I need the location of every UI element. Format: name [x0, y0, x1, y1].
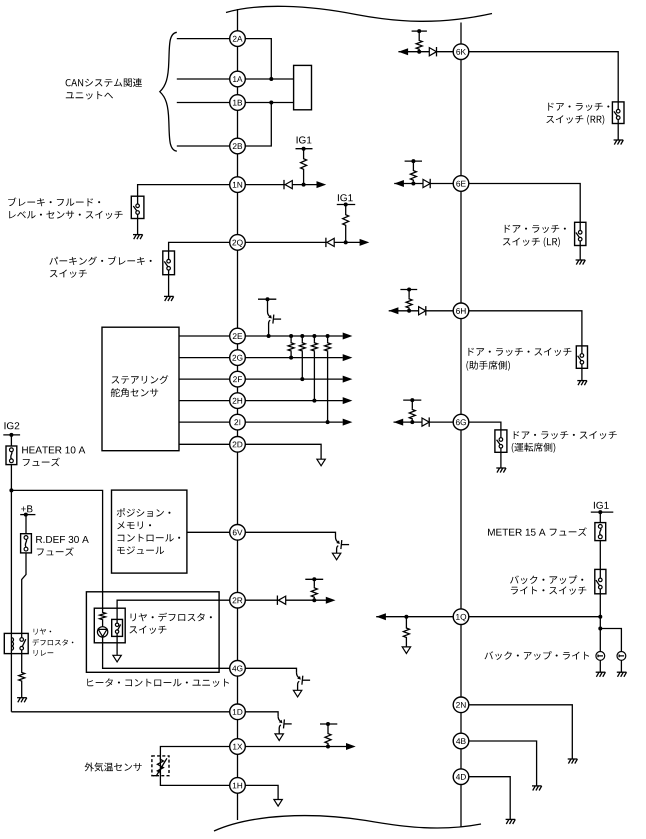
wire 1Q left: [376, 616, 453, 618]
ground parking brake switch: [164, 296, 174, 301]
wire switch LR to ground: [579, 246, 581, 261]
resistor defroster indicator: [100, 612, 106, 621]
label CAN system units line1: [66, 78, 142, 87]
relay switch contacts: [20, 633, 26, 653]
diode 2R: [277, 596, 285, 605]
supply tap bar (2R): [305, 577, 323, 581]
indicator lamp defroster: [97, 627, 107, 637]
wire 1Q right: [469, 616, 601, 618]
wire resistor to 2Q line: [345, 227, 347, 243]
wire resistor stub (6E): [412, 181, 414, 183]
wire 1N output: [245, 184, 317, 186]
supply tap bar (6G): [403, 398, 421, 402]
label HEATER 10 A: [22, 446, 85, 453]
node 1D: [230, 704, 246, 720]
arrow 2R output: [326, 597, 336, 604]
node 6H: [453, 303, 469, 319]
wire resistor to lamp: [102, 621, 104, 627]
label backup lights: [485, 651, 590, 660]
wire tap to resistor (6H): [408, 290, 410, 298]
wire steering box pin y=444.3: [179, 443, 238, 445]
label brake fluid line2: [9, 211, 122, 219]
junction heater fuse: [9, 488, 13, 492]
label meter fuse jp: [550, 527, 587, 536]
wire 1D output: [245, 712, 278, 717]
wire tap3 down: [313, 352, 315, 401]
label door latch LR line1: [505, 225, 566, 233]
label door latch RR line2: [546, 115, 604, 125]
wire tap4 down: [327, 352, 329, 422]
node 4B: [453, 733, 469, 749]
label relay line1: [34, 628, 52, 634]
junction 1Q/backup switch: [598, 615, 602, 619]
wire lamp to 4G: [103, 637, 230, 668]
wire to backup light 2: [600, 629, 621, 652]
wire 2N to ground: [469, 705, 573, 759]
ground door latch RR: [614, 140, 624, 145]
open arrow 1D: [275, 734, 283, 741]
fuse HEATER 10A: [6, 446, 17, 465]
junction tap4 bottom: [326, 420, 330, 424]
wire lamp1 to ground: [599, 660, 601, 672]
junction connector/2E: [267, 334, 271, 338]
wire defroster switch to arrow: [116, 636, 118, 655]
IG1 tap bar (meter): [591, 510, 614, 514]
wire 2Q to parking brake switch: [169, 242, 238, 251]
top breakline wave: [226, 6, 492, 21]
wire 6E to door latch LR: [469, 184, 580, 223]
node 2G: [230, 350, 246, 366]
resistor IG1 pullup (1N): [301, 158, 307, 171]
wire 4G output: [245, 668, 296, 672]
wire resistor stub (6K): [418, 50, 420, 52]
label door latch RR line1: [548, 103, 609, 111]
junction 1N/IG1: [302, 183, 306, 187]
wire tap1 stub: [290, 336, 292, 342]
label R.DEF 30 A: [36, 536, 89, 543]
node 2Q: [230, 235, 246, 251]
arrow 6E: [394, 180, 404, 187]
wire junction down to relay coil: [10, 490, 12, 711]
arrow 2Q output: [360, 239, 370, 246]
resistor defroster grid: [19, 672, 25, 682]
wire steering box pin y=379.1: [179, 378, 238, 380]
wire steering box pin y=400.6: [179, 400, 238, 402]
junction tap4 on 2E line: [326, 334, 330, 338]
node 1N: [230, 177, 246, 193]
wire tap4 stub: [327, 336, 329, 342]
door latch switch RR: [612, 102, 624, 124]
wire switch passenger to ground: [581, 368, 583, 380]
arrow 2G output: [343, 354, 353, 361]
label module line1: [117, 508, 171, 517]
bottom breakline wave: [214, 816, 481, 831]
IG1 tap bar (1N): [296, 147, 313, 151]
backup light lamp 1: [596, 652, 605, 661]
node 6K: [453, 44, 469, 60]
heater control unit box: [86, 592, 219, 673]
label air temp sensor: [85, 762, 142, 771]
label rdef fuse jp: [37, 547, 74, 556]
wire 1A to CAN box: [245, 78, 293, 80]
label door latch driver line2: [512, 443, 556, 453]
wire backup switch to junction: [599, 594, 601, 629]
node 1B: [230, 95, 246, 111]
wire module to 6V: [187, 531, 238, 533]
wire 2B to CAN junction: [245, 103, 271, 147]
wire resistor to ground (relay): [21, 682, 23, 698]
node 2H: [230, 393, 246, 409]
node 2F: [230, 371, 246, 387]
wire 1X output: [245, 746, 346, 748]
supply tap bar (1X): [320, 722, 337, 726]
relay coil: [11, 638, 13, 651]
wire tap to connector (2E): [267, 299, 269, 311]
supply tap bar (6H): [400, 288, 417, 292]
label relay line3: [34, 650, 54, 656]
junction 1Q/resistor: [404, 615, 408, 619]
left bus wire: [237, 9, 239, 820]
wire IG1 to resistor (1N): [303, 149, 305, 158]
label module line2: [117, 522, 151, 530]
wire 1N to brake fluid switch: [138, 185, 238, 197]
wire 6K to door latch RR: [469, 52, 618, 102]
wire relay switch to resistor: [21, 654, 23, 672]
junction 6G/tap: [410, 420, 414, 424]
fuse METER 15A: [595, 523, 606, 541]
wire junction to defroster lamp branch: [11, 490, 102, 611]
resistor tap (2R): [311, 587, 317, 598]
ground door latch LR: [576, 260, 586, 265]
resistor IG1 pullup (2Q): [343, 214, 349, 227]
junction tap3 on 2E line: [312, 334, 316, 338]
resistor 1Q: [403, 627, 409, 639]
arrow 2I output: [343, 419, 353, 426]
node 6G: [453, 414, 469, 430]
arrow 2H output: [343, 397, 353, 404]
wire 2I output: [245, 421, 342, 423]
junction 1X/tap: [326, 745, 330, 749]
node 6V: [230, 525, 246, 541]
junction 2A/1A: [269, 77, 273, 81]
wire steering box pin y=422.1: [179, 421, 238, 423]
arrow 2E output: [343, 333, 353, 340]
label relay line2: [33, 639, 74, 646]
ground brake fluid switch: [133, 235, 143, 240]
wire resistor to arrow (1Q): [405, 639, 407, 647]
label module line3: [118, 534, 181, 542]
wire fuse to junction: [10, 465, 12, 491]
node 2N: [453, 697, 469, 713]
defroster switch contacts: [112, 619, 123, 636]
diode 6G: [422, 417, 429, 426]
label CAN system units line2: [66, 91, 113, 99]
wire 1B to CAN box: [245, 102, 293, 104]
node 2B: [230, 138, 246, 154]
junction 6E/tap: [411, 182, 415, 186]
wire resistor to 1N line: [303, 171, 305, 185]
wire METER fuse to backup switch: [599, 541, 601, 570]
label door latch LR line2: [503, 237, 560, 247]
wire steering box pin y=357.6: [179, 357, 238, 359]
junction tap1 on 2E line: [289, 334, 293, 338]
wire tap to resistor (6G): [411, 400, 413, 408]
wire 2F output: [245, 378, 342, 380]
ground defroster: [17, 698, 27, 703]
wire 2Q output: [245, 241, 360, 243]
open arrow defroster switch: [113, 655, 121, 662]
wire connector to arrow (6V): [336, 549, 338, 553]
node 4G: [230, 661, 246, 677]
wire resistor stub (6H): [408, 309, 410, 311]
arrow 1Q: [376, 613, 386, 620]
label brake fluid line1: [8, 198, 100, 207]
wire 2H output: [245, 400, 342, 402]
wire 6E left: [394, 183, 453, 185]
thermistor outside air temp: [153, 758, 167, 776]
CAN termination box: [294, 65, 312, 109]
resistor tap (1X): [325, 733, 331, 745]
wire +B to fuse: [25, 515, 27, 534]
inline connector (2E): [268, 312, 282, 324]
wire tap1 down: [290, 352, 292, 358]
junction tap2 on 2E line: [300, 334, 304, 338]
CAN brace: [160, 32, 177, 151]
rear defroster relay box: [4, 633, 28, 653]
resistor tap1: [288, 342, 294, 352]
wire 6K left: [398, 51, 453, 53]
node 2A: [230, 31, 246, 47]
diode 1N: [284, 180, 292, 189]
wire brace to 1B: [177, 102, 238, 104]
arrow 6K: [398, 48, 408, 55]
node 1A: [230, 71, 246, 87]
outside air temp sensor box: [152, 756, 169, 776]
wire tap3 stub: [313, 336, 315, 342]
wire connector to 2E line: [268, 324, 270, 337]
inline connector (1D): [278, 716, 292, 728]
IG1 tap bar (2Q): [337, 203, 355, 207]
resistor tap3: [311, 342, 317, 352]
wire connector to arrow (4G): [297, 685, 299, 691]
arrow 2F output: [343, 376, 353, 383]
label METER 15 A: [488, 529, 546, 536]
junction backup lights: [598, 627, 602, 631]
ground door latch driver: [496, 468, 506, 473]
wire 2G output: [245, 357, 342, 359]
wire 2R output: [245, 599, 326, 601]
wire resistor stub (6G): [411, 420, 413, 422]
label IG1 (2Q): [338, 194, 353, 201]
wire tap to resistor (6K): [418, 31, 420, 39]
ground 4D: [506, 819, 516, 824]
rear defroster switch inner box: [94, 608, 125, 643]
backup light switch: [595, 569, 606, 593]
node 2E: [230, 328, 246, 344]
backup light lamp 2: [617, 652, 626, 661]
junction tap3 bottom: [312, 399, 316, 403]
label steering line1: [112, 375, 169, 384]
open arrow 2D: [317, 459, 325, 466]
+B tap bar: [20, 513, 35, 517]
label backup switch line1: [510, 575, 583, 584]
label heater fuse jp: [23, 458, 60, 467]
diode 6H: [419, 306, 426, 315]
label +B: [21, 505, 32, 512]
open arrow 4G: [293, 690, 301, 697]
wire switch driver to ground: [500, 452, 502, 468]
label heater control unit: [87, 678, 229, 687]
right bus wire: [460, 23, 462, 828]
ground 2N: [568, 759, 578, 764]
wire 2R to defroster switch: [117, 600, 230, 619]
junction tap2 bottom: [300, 377, 304, 381]
resistor tap (6H): [406, 298, 412, 309]
wire 1X to air temp sensor to 1H: [160, 747, 229, 786]
wire IG1 to resistor (2Q): [345, 205, 347, 214]
wire tap2 down: [301, 352, 303, 379]
label parking brake line2: [50, 270, 87, 278]
position memory control module box: [112, 490, 187, 573]
wire 2D output: [245, 444, 321, 459]
junction 2B/1B: [269, 101, 273, 105]
wire switch RR to ground: [617, 124, 619, 141]
node 2I: [230, 414, 246, 430]
label defroster sw line1: [131, 613, 212, 622]
node 2R: [230, 592, 246, 608]
inline connector (4G): [297, 673, 311, 685]
node 4D: [453, 769, 469, 785]
resistor tap2: [299, 342, 305, 352]
wire 1H output: [245, 785, 278, 799]
junction 2R/tap: [312, 598, 316, 602]
wire to backup light 1: [599, 629, 601, 652]
supply tap bar above 2E: [258, 297, 276, 301]
junction 6H/tap: [407, 309, 411, 313]
wire switch to ground (2Q): [168, 275, 170, 297]
fuse R.DEF 30A: [21, 534, 32, 553]
door latch switch driver: [495, 430, 507, 452]
open arrow 6V: [332, 553, 340, 560]
wire IG2 to fuse: [10, 435, 12, 446]
supply tap bar (6K): [412, 29, 427, 33]
wire tap to resistor (2R): [313, 579, 315, 587]
wire 4D to ground: [469, 777, 510, 820]
resistor tap4: [325, 342, 331, 352]
node 1H: [230, 778, 246, 794]
wire 2E output: [245, 335, 342, 337]
wire relay coil to 1D line: [11, 711, 229, 713]
arrow 6H: [389, 307, 399, 314]
label door latch passenger line2: [466, 361, 510, 371]
ground 4B: [532, 786, 542, 791]
wire steering box pin y=336: [179, 335, 238, 337]
ground backup light 1: [596, 672, 606, 677]
wire junction to resistor (1Q): [405, 617, 407, 627]
wire tap to resistor (1X): [327, 724, 329, 733]
arrow 6G: [394, 419, 404, 426]
resistor tap (6K): [416, 40, 422, 51]
wire tap2 stub: [301, 336, 303, 342]
inline connector (6V): [336, 537, 350, 549]
label steering line2: [111, 388, 158, 397]
IG2 tap bar: [3, 433, 20, 437]
wire resistor to 1X line: [327, 745, 329, 747]
brake fluid level sensor switch: [131, 196, 144, 218]
wire 2A to CAN junction: [245, 39, 271, 79]
diode 6E: [423, 179, 430, 188]
parking brake switch: [163, 251, 175, 275]
wire 6H left: [389, 310, 454, 312]
node 1X: [230, 739, 246, 755]
door latch switch LR: [575, 222, 586, 245]
arrow 1X output: [346, 743, 356, 750]
wire switch to ground: [137, 219, 139, 235]
wire tap to resistor (6E): [412, 161, 414, 169]
wire connector to arrow (1D): [278, 728, 280, 734]
label door latch passenger line1: [468, 348, 571, 356]
wire brace to 1A: [177, 78, 238, 80]
label backup switch line2: [511, 586, 586, 594]
node 6E: [453, 176, 469, 192]
wire 6V output: [245, 532, 335, 537]
door latch switch passenger: [576, 346, 587, 368]
junction 6K/tap: [417, 50, 421, 54]
ground door latch passenger: [577, 381, 587, 386]
resistor tap (6G): [409, 408, 415, 419]
wire brace to 2B: [177, 145, 238, 147]
wire R.DEF fuse to relay switch: [22, 553, 26, 634]
arrow 1N output: [317, 181, 327, 188]
label parking brake line1: [49, 256, 151, 265]
steering angle sensor box: [102, 327, 179, 451]
wire 6G left: [394, 421, 454, 423]
open arrow 1H: [274, 800, 282, 807]
wire lamp2 to ground: [620, 660, 622, 672]
wire brace to 2A: [177, 38, 238, 40]
label module line4: [117, 546, 164, 554]
open arrow 1Q: [402, 647, 410, 654]
diode 2Q: [326, 238, 334, 247]
label IG1 (meter): [594, 502, 609, 509]
node 2D: [230, 437, 246, 453]
ground backup light 2: [617, 672, 627, 677]
wire 4B to ground: [469, 741, 537, 786]
label IG1 (1N): [297, 136, 312, 143]
wire 6H to door latch passenger: [469, 311, 582, 346]
wire 6G to door latch driver: [469, 422, 501, 430]
wire resistor to 2R line: [313, 598, 315, 600]
junction tap1 bottom: [289, 356, 293, 360]
wire IG1 to METER fuse: [599, 512, 601, 523]
label door latch driver line1: [514, 431, 617, 439]
supply tap bar (6E): [405, 159, 422, 163]
label IG2: [5, 422, 20, 429]
label defroster sw line2: [129, 626, 166, 634]
resistor tap (6E): [410, 170, 416, 182]
node 1Q: [453, 609, 469, 625]
junction 2Q/IG1: [344, 240, 348, 244]
diode 6K: [429, 47, 436, 56]
